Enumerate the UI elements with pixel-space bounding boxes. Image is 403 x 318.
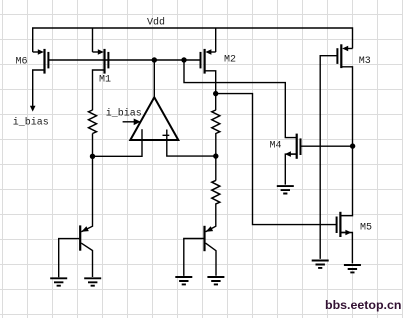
transistor Q2 (PNP)	[184, 226, 216, 276]
arrow i_bias current (left)	[30, 106, 36, 112]
ground (Q2 collector)	[207, 277, 224, 284]
op-amp U1	[130, 97, 178, 140]
ground (M4 source)	[277, 186, 294, 193]
wire R3 to Q2 emitter	[206, 203, 216, 231]
svg-text:M5: M5	[360, 223, 372, 234]
svg-text:M4: M4	[270, 141, 282, 152]
wire R1 bottom to Q1 emitter	[81, 134, 92, 232]
svg-text:i_bias: i_bias	[13, 116, 49, 128]
transistor M3	[337, 44, 352, 68]
node: M3 drain / M4 gate	[350, 143, 355, 148]
svg-text:M3: M3	[359, 56, 371, 67]
resistor R3	[212, 180, 220, 204]
wire M1 source drop	[92, 28, 94, 52]
wire M1 drain to resistor R1	[93, 70, 105, 110]
node: R1 bottom / op-amp minus	[90, 154, 95, 159]
transistor Q1 (PNP)	[59, 225, 93, 277]
svg-text:M6: M6	[16, 57, 28, 68]
wire op-amp plus input	[167, 140, 216, 156]
transistor M2	[201, 49, 216, 74]
wire op-amp output to gate bus	[153, 60, 155, 98]
wire M5 source to ground	[340, 233, 352, 264]
wire M3 drain to M5 drain	[340, 67, 352, 216]
wire M6 drain to i_bias	[33, 70, 45, 108]
node: R2 bottom / op-amp plus	[213, 153, 218, 158]
node: op-amp output / gate bus	[152, 57, 157, 62]
wire op-amp minus input	[93, 140, 143, 156]
transistor M1	[93, 49, 109, 74]
wire M4 gate	[300, 145, 352, 147]
wire gate bus to M4 drain	[184, 60, 297, 138]
arrow i_bias into op-amp	[123, 119, 141, 126]
node: M2 drain / M5 gate link	[213, 91, 218, 96]
svg-text:M2: M2	[224, 55, 236, 66]
wire Vdd rail	[33, 28, 353, 52]
resistor R2	[212, 110, 220, 134]
resistor R1	[89, 110, 97, 134]
node: gate bus / M4 drain link	[181, 57, 186, 62]
ground (Q1 base)	[50, 278, 67, 285]
svg-text:M1: M1	[99, 75, 111, 86]
ground (Q2 base)	[175, 277, 192, 284]
ground (M5 source)	[344, 265, 361, 272]
wire M3 gate to ground	[320, 56, 337, 259]
transistor M4	[285, 134, 301, 159]
wire M4 source to ground	[285, 154, 296, 185]
wire M2 source drop	[215, 28, 217, 52]
ground (M3 gate leg)	[312, 261, 329, 268]
wire M2 drain node to M5 gate	[216, 94, 337, 225]
ground (Q1 collector)	[84, 278, 101, 285]
transistor M6	[33, 49, 49, 74]
transistor M5	[337, 212, 352, 237]
wire R2 to R3	[215, 133, 217, 181]
svg-text:bbs.eetop.cn: bbs.eetop.cn	[325, 298, 401, 312]
svg-text:i_bias: i_bias	[106, 108, 142, 120]
wire M2 drain to resistor R2	[205, 71, 216, 110]
svg-text:Vdd: Vdd	[147, 16, 165, 28]
wire gate bus M6-M1-M2	[48, 59, 200, 61]
